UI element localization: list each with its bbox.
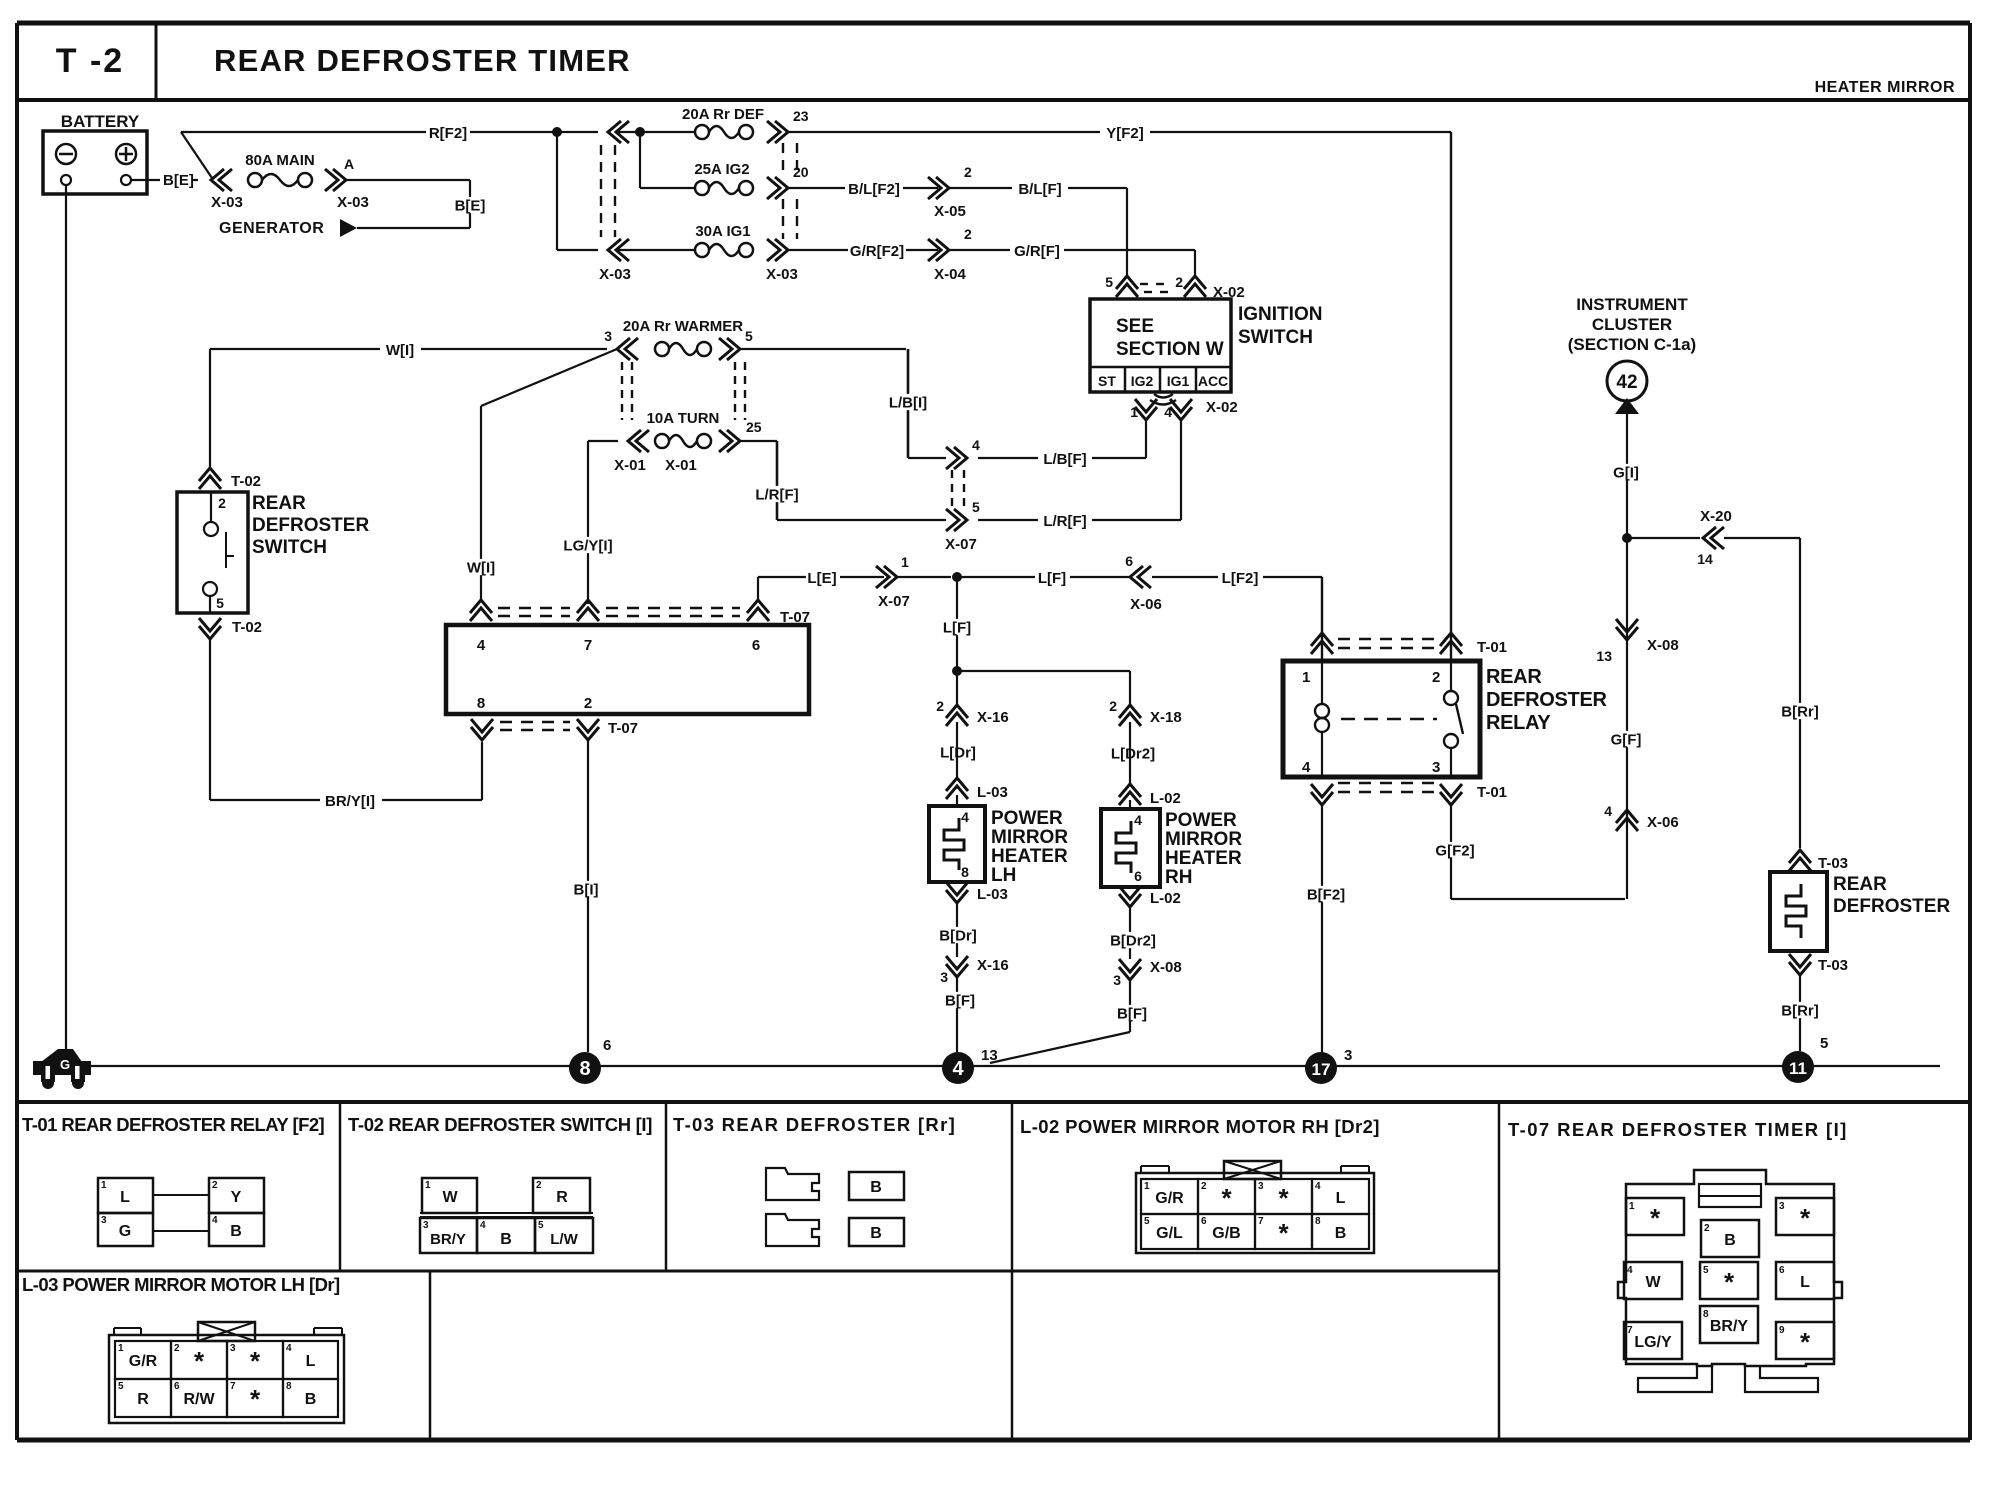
svg-text:SEE: SEE	[1116, 316, 1154, 337]
svg-text:W: W	[1645, 1274, 1661, 1291]
svg-text:11: 11	[1789, 1059, 1807, 1078]
svg-text:L-02: L-02	[1150, 890, 1181, 907]
svg-text:X-03: X-03	[211, 194, 243, 211]
svg-text:DEFROSTER: DEFROSTER	[252, 515, 369, 536]
svg-text:3: 3	[230, 1343, 236, 1354]
svg-text:3: 3	[1779, 1201, 1785, 1212]
svg-text:B[F2]: B[F2]	[1307, 886, 1345, 903]
svg-text:L-03 POWER MIRROR MOTOR LH [Dr: L-03 POWER MIRROR MOTOR LH [Dr]	[22, 1274, 340, 1295]
svg-text:REAR: REAR	[1486, 666, 1542, 688]
svg-text:5: 5	[745, 328, 753, 344]
svg-text:L/W: L/W	[550, 1231, 578, 1248]
svg-text:SWITCH: SWITCH	[252, 537, 327, 558]
svg-text:B: B	[1335, 1225, 1347, 1242]
svg-text:R/W: R/W	[183, 1391, 215, 1408]
svg-text:5: 5	[216, 595, 224, 611]
svg-text:X-08: X-08	[1150, 959, 1182, 976]
svg-text:LG/Y: LG/Y	[1634, 1334, 1672, 1351]
svg-text:L/B[F]: L/B[F]	[1043, 451, 1086, 468]
svg-text:L[F]: L[F]	[1038, 570, 1066, 587]
svg-text:L-03: L-03	[977, 886, 1008, 903]
svg-text:2: 2	[1704, 1223, 1710, 1234]
svg-text:IG1: IG1	[1167, 373, 1190, 389]
svg-text:L/R[F]: L/R[F]	[755, 486, 798, 503]
svg-text:6: 6	[752, 637, 760, 654]
svg-text:G/R[F]: G/R[F]	[1014, 243, 1060, 260]
svg-text:X-08: X-08	[1647, 637, 1679, 654]
svg-text:2: 2	[936, 698, 944, 714]
svg-text:B/L[F2]: B/L[F2]	[848, 181, 900, 198]
svg-text:L: L	[120, 1189, 130, 1206]
svg-text:T-07: T-07	[780, 609, 810, 626]
svg-text:B[F]: B[F]	[945, 992, 975, 1009]
svg-text:4: 4	[952, 1058, 964, 1080]
svg-text:LG/Y[I]: LG/Y[I]	[563, 537, 612, 554]
svg-text:4: 4	[972, 437, 980, 453]
svg-text:G/R[F2]: G/R[F2]	[850, 243, 904, 260]
svg-text:1: 1	[1130, 404, 1138, 420]
svg-text:ST: ST	[1098, 373, 1116, 389]
svg-text:L[Dr2]: L[Dr2]	[1111, 745, 1155, 762]
svg-text:X-02: X-02	[1206, 399, 1238, 416]
svg-text:3: 3	[423, 1220, 429, 1231]
svg-text:X-01: X-01	[614, 457, 646, 474]
svg-text:B: B	[500, 1231, 512, 1248]
svg-text:B[F]: B[F]	[1117, 1005, 1147, 1022]
svg-text:X-16: X-16	[977, 709, 1009, 726]
svg-text:B[E]: B[E]	[455, 197, 486, 214]
svg-text:4: 4	[1164, 404, 1172, 420]
svg-text:13: 13	[1596, 648, 1612, 664]
svg-text:LH: LH	[991, 865, 1016, 886]
svg-text:7: 7	[1258, 1216, 1264, 1227]
svg-text:8: 8	[1315, 1216, 1321, 1227]
svg-text:8: 8	[477, 695, 485, 712]
svg-text:B: B	[305, 1391, 317, 1408]
svg-text:*: *	[250, 1346, 261, 1376]
svg-text:SECTION W: SECTION W	[1116, 339, 1224, 360]
svg-text:T-01: T-01	[1477, 784, 1507, 801]
svg-text:R[F2]: R[F2]	[429, 125, 467, 142]
svg-text:8: 8	[286, 1381, 292, 1392]
svg-text:X-03: X-03	[766, 266, 798, 283]
svg-text:20A Rr DEF: 20A Rr DEF	[682, 106, 764, 123]
svg-text:BR/Y[I]: BR/Y[I]	[325, 793, 375, 810]
svg-text:CLUSTER: CLUSTER	[1592, 315, 1672, 334]
svg-text:REAR: REAR	[252, 493, 306, 514]
svg-text:IGNITION: IGNITION	[1238, 304, 1322, 325]
svg-text:17: 17	[1312, 1060, 1331, 1079]
svg-text:*: *	[194, 1346, 205, 1376]
svg-text:4: 4	[212, 1215, 218, 1226]
svg-text:80A MAIN: 80A MAIN	[245, 152, 314, 169]
svg-text:*: *	[1800, 1327, 1811, 1357]
svg-text:T-03: T-03	[1818, 957, 1848, 974]
svg-text:1: 1	[118, 1343, 124, 1354]
svg-text:B[Rr]: B[Rr]	[1781, 1002, 1819, 1019]
svg-text:20A Rr WARMER: 20A Rr WARMER	[623, 318, 743, 335]
svg-text:R: R	[556, 1189, 568, 1206]
svg-text:1: 1	[425, 1180, 431, 1191]
svg-text:4: 4	[1627, 1265, 1633, 1276]
svg-text:30A IG1: 30A IG1	[695, 223, 750, 240]
svg-text:5: 5	[1820, 1035, 1828, 1052]
svg-text:T-07 REAR DEFROSTER TIMER [I]: T-07 REAR DEFROSTER TIMER [I]	[1508, 1119, 1848, 1140]
svg-text:10A TURN: 10A TURN	[647, 410, 720, 427]
svg-text:4: 4	[477, 637, 486, 654]
svg-text:W[I]: W[I]	[386, 342, 414, 359]
svg-text:2: 2	[1175, 274, 1183, 290]
svg-text:X-06: X-06	[1647, 814, 1679, 831]
svg-text:X-03: X-03	[599, 266, 631, 283]
svg-text:G/R: G/R	[1155, 1190, 1184, 1207]
svg-text:L/R[F]: L/R[F]	[1043, 513, 1086, 530]
svg-text:B: B	[1724, 1232, 1736, 1249]
svg-text:2: 2	[212, 1180, 218, 1191]
svg-text:BR/Y: BR/Y	[430, 1231, 466, 1248]
svg-text:W: W	[442, 1189, 458, 1206]
svg-text:1: 1	[1629, 1201, 1635, 1212]
svg-text:T-01 REAR DEFROSTER RELAY [F2]: T-01 REAR DEFROSTER RELAY [F2]	[22, 1114, 325, 1135]
svg-text:8: 8	[961, 864, 969, 880]
svg-text:4: 4	[1134, 812, 1142, 828]
svg-text:23: 23	[793, 108, 809, 124]
svg-text:T-02: T-02	[231, 473, 261, 490]
svg-text:5: 5	[1144, 1216, 1150, 1227]
svg-text:7: 7	[1627, 1325, 1633, 1336]
svg-text:G: G	[119, 1223, 131, 1240]
svg-text:HEATER: HEATER	[1165, 848, 1242, 869]
svg-text:1: 1	[1144, 1181, 1150, 1192]
svg-text:4: 4	[1315, 1181, 1321, 1192]
svg-text:B/L[F]: B/L[F]	[1018, 181, 1061, 198]
svg-text:X-20: X-20	[1700, 508, 1732, 525]
svg-text:2: 2	[1432, 669, 1440, 686]
svg-text:*: *	[250, 1384, 261, 1414]
svg-text:L-02: L-02	[1150, 790, 1181, 807]
svg-text:4: 4	[286, 1343, 292, 1354]
svg-text:G[F]: G[F]	[1611, 731, 1642, 748]
svg-text:W[I]: W[I]	[467, 559, 495, 576]
svg-text:*: *	[1800, 1203, 1811, 1233]
svg-text:4: 4	[1604, 803, 1612, 819]
svg-text:5: 5	[972, 499, 980, 515]
svg-text:G/L: G/L	[1156, 1225, 1183, 1242]
svg-text:HEATER: HEATER	[991, 846, 1068, 867]
svg-text:BR/Y: BR/Y	[1710, 1318, 1749, 1335]
svg-text:IG2: IG2	[1131, 373, 1154, 389]
svg-text:6: 6	[174, 1381, 180, 1392]
svg-text:L/B[I]: L/B[I]	[889, 394, 927, 411]
svg-text:6: 6	[1201, 1216, 1207, 1227]
svg-text:X-07: X-07	[945, 536, 977, 553]
svg-text:14: 14	[1697, 551, 1713, 567]
svg-text:5: 5	[1703, 1265, 1709, 1276]
svg-text:5: 5	[118, 1381, 124, 1392]
svg-text:20: 20	[793, 164, 809, 180]
svg-text:8: 8	[1703, 1309, 1709, 1320]
svg-text:3: 3	[604, 328, 612, 344]
svg-text:MIRROR: MIRROR	[991, 827, 1068, 848]
svg-text:6: 6	[603, 1037, 611, 1054]
svg-text:REAR DEFROSTER TIMER: REAR DEFROSTER TIMER	[214, 43, 631, 78]
svg-text:A: A	[344, 156, 354, 172]
svg-text:DEFROSTER: DEFROSTER	[1486, 689, 1607, 711]
svg-text:L[F]: L[F]	[943, 619, 971, 636]
svg-text:T-07: T-07	[608, 720, 638, 737]
svg-text:X-01: X-01	[665, 457, 697, 474]
svg-text:8: 8	[579, 1058, 590, 1080]
svg-text:7: 7	[584, 637, 592, 654]
svg-text:G/R: G/R	[129, 1353, 158, 1370]
svg-text:X-18: X-18	[1150, 709, 1182, 726]
svg-text:L: L	[1800, 1274, 1810, 1291]
svg-text:2: 2	[964, 226, 972, 242]
svg-text:G[I]: G[I]	[1613, 464, 1639, 481]
svg-text:DEFROSTER: DEFROSTER	[1833, 896, 1950, 917]
svg-text:3: 3	[1113, 972, 1121, 988]
svg-text:B: B	[870, 1179, 882, 1196]
svg-text:25A IG2: 25A IG2	[694, 161, 749, 178]
svg-text:5: 5	[538, 1220, 544, 1231]
svg-text:25: 25	[746, 419, 762, 435]
svg-text:*: *	[1278, 1218, 1289, 1248]
svg-text:6: 6	[1134, 868, 1142, 884]
svg-text:X-03: X-03	[337, 194, 369, 211]
svg-text:4: 4	[961, 809, 969, 825]
svg-text:Y: Y	[231, 1189, 242, 1206]
svg-text:X-04: X-04	[934, 266, 966, 283]
svg-text:X-07: X-07	[878, 593, 910, 610]
svg-text:5: 5	[1105, 274, 1113, 290]
svg-text:B[I]: B[I]	[574, 881, 599, 898]
svg-text:POWER: POWER	[991, 808, 1063, 829]
svg-text:L[F2]: L[F2]	[1222, 570, 1259, 587]
svg-text:L: L	[306, 1353, 316, 1370]
svg-text:G: G	[60, 1057, 70, 1072]
svg-text:B: B	[870, 1225, 882, 1242]
svg-text:2: 2	[1109, 698, 1117, 714]
svg-text:GENERATOR: GENERATOR	[219, 220, 324, 237]
svg-text:1: 1	[101, 1180, 107, 1191]
svg-text:X-05: X-05	[934, 203, 966, 220]
svg-text:6: 6	[1125, 553, 1133, 569]
svg-text:2: 2	[1201, 1181, 1207, 1192]
svg-text:6: 6	[1779, 1265, 1785, 1276]
svg-text:*: *	[1650, 1203, 1661, 1233]
svg-text:7: 7	[230, 1381, 236, 1392]
svg-text:4: 4	[1302, 759, 1311, 776]
svg-text:3: 3	[101, 1215, 107, 1226]
svg-text:SWITCH: SWITCH	[1238, 327, 1313, 348]
svg-text:T-03 REAR DEFROSTER [Rr]: T-03 REAR DEFROSTER [Rr]	[673, 1114, 956, 1135]
svg-text:T-01: T-01	[1477, 639, 1507, 656]
svg-text:3: 3	[940, 969, 948, 985]
svg-text:42: 42	[1616, 372, 1637, 393]
svg-text:T-03: T-03	[1818, 855, 1848, 872]
svg-text:L-02 POWER MIRROR MOTOR RH [Dr: L-02 POWER MIRROR MOTOR RH [Dr2]	[1020, 1116, 1380, 1137]
svg-text:2: 2	[174, 1343, 180, 1354]
svg-text:B: B	[230, 1223, 242, 1240]
svg-text:*: *	[1221, 1183, 1232, 1213]
svg-text:B[Dr]: B[Dr]	[939, 927, 977, 944]
svg-text:*: *	[1724, 1267, 1735, 1297]
svg-text:(SECTION C-1a): (SECTION C-1a)	[1568, 335, 1696, 354]
svg-text:MIRROR: MIRROR	[1165, 829, 1242, 850]
svg-text:1: 1	[1302, 669, 1310, 686]
svg-text:3: 3	[1344, 1047, 1352, 1064]
svg-text:*: *	[1278, 1183, 1289, 1213]
svg-text:X-06: X-06	[1130, 596, 1162, 613]
svg-text:1: 1	[901, 554, 909, 570]
svg-text:R: R	[137, 1391, 149, 1408]
svg-text:2: 2	[964, 164, 972, 180]
svg-text:POWER: POWER	[1165, 810, 1237, 831]
svg-text:B[Dr2]: B[Dr2]	[1110, 932, 1156, 949]
svg-text:3: 3	[1432, 759, 1440, 776]
svg-text:RELAY: RELAY	[1486, 712, 1551, 734]
svg-text:L-03: L-03	[977, 784, 1008, 801]
svg-text:INSTRUMENT: INSTRUMENT	[1576, 295, 1688, 314]
svg-text:BATTERY: BATTERY	[61, 112, 140, 131]
svg-text:G/B: G/B	[1212, 1225, 1240, 1242]
svg-text:B[Rr]: B[Rr]	[1781, 703, 1819, 720]
svg-text:X-16: X-16	[977, 957, 1009, 974]
svg-text:13: 13	[981, 1047, 998, 1064]
svg-text:HEATER MIRROR: HEATER MIRROR	[1815, 79, 1955, 96]
svg-text:L[E]: L[E]	[807, 570, 836, 587]
svg-text:T-02 REAR DEFROSTER SWITCH [I]: T-02 REAR DEFROSTER SWITCH [I]	[348, 1114, 652, 1135]
svg-text:G[F2]: G[F2]	[1435, 842, 1474, 859]
svg-text:RH: RH	[1165, 867, 1192, 888]
svg-text:T-02: T-02	[232, 619, 262, 636]
svg-text:T -2: T -2	[56, 42, 124, 80]
svg-text:2: 2	[584, 695, 592, 712]
svg-text:REAR: REAR	[1833, 874, 1887, 895]
svg-text:9: 9	[1779, 1325, 1785, 1336]
svg-text:B[E]: B[E]	[163, 172, 194, 189]
svg-text:4: 4	[480, 1220, 486, 1231]
svg-text:3: 3	[1258, 1181, 1264, 1192]
svg-text:Y[F2]: Y[F2]	[1106, 125, 1144, 142]
svg-text:L: L	[1336, 1190, 1346, 1207]
svg-text:ACC: ACC	[1198, 373, 1228, 389]
svg-text:2: 2	[536, 1180, 542, 1191]
svg-text:2: 2	[218, 495, 226, 511]
